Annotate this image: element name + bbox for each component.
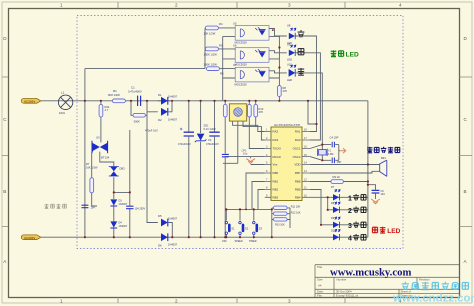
- svg-text:10u: 10u: [243, 152, 248, 156]
- zener ZD1: [195, 124, 216, 143]
- resistor R8 47K opto return: [278, 86, 288, 97]
- resistor R16 10K: [273, 218, 287, 227]
- resistor R6 160K: [204, 62, 224, 75]
- svg-text:U8: U8: [287, 24, 291, 28]
- diode D1 1N4007: [158, 93, 178, 105]
- resistor R5 130K: [204, 43, 223, 56]
- wire LED2 to RA0: [296, 53, 321, 140]
- LED U8 high: [287, 24, 296, 45]
- wire opto left-cathode bus: [223, 36, 236, 100]
- LED U10 low: [287, 63, 296, 82]
- diac DB3: [109, 166, 125, 176]
- svg-text:47K: 47K: [283, 89, 288, 93]
- svg-text:15P: 15P: [337, 160, 342, 164]
- text green LED label: [331, 50, 344, 56]
- resistor R13 47K: [254, 104, 264, 117]
- text low: [298, 68, 304, 75]
- svg-text:RB0: RB0: [273, 171, 279, 175]
- svg-text:OSC1: OSC1: [293, 147, 301, 151]
- svg-text:Title: Title: [317, 265, 323, 269]
- resistor R24: [99, 104, 110, 117]
- wire VDD to buzzer: [310, 164, 380, 166]
- resistor R1 in rail: [108, 89, 125, 103]
- svg-text:MCLR: MCLR: [273, 155, 281, 159]
- wire diac to cap/diode node: [114, 130, 130, 237]
- svg-text:R6: R6: [220, 72, 224, 76]
- text PTC note: [45, 204, 67, 209]
- svg-text:RB7: RB7: [295, 171, 301, 175]
- crystal Y1: [318, 149, 334, 156]
- svg-text:2: 2: [175, 3, 178, 8]
- optocoupler U5 MOC3020: [233, 21, 269, 44]
- text high: [298, 30, 305, 37]
- svg-text:160K 1/2W: 160K 1/2W: [204, 62, 218, 66]
- wire RB6 through R9 to bus: [310, 181, 368, 183]
- capacitor C9 104/250V: [126, 206, 145, 210]
- svg-text:6K8 1/2W: 6K8 1/2W: [108, 93, 120, 97]
- title block: [315, 265, 459, 297]
- switch S2: [235, 221, 249, 242]
- wire pull resistor bank: [272, 208, 290, 237]
- svg-text:Size: Size: [317, 278, 323, 282]
- wire bottom AC rail: [41, 236, 368, 238]
- wire top AC rail: [41, 100, 368, 102]
- svg-text:E:\png\ 900111.ck: E:\png\ 900111.ck: [336, 294, 359, 298]
- svg-text:U7: U7: [233, 63, 237, 67]
- wire left vertical bus: [84, 69, 86, 238]
- text 2 hour: [348, 206, 366, 214]
- diode D2 1N4007: [158, 108, 178, 122]
- LED U9 mid: [287, 42, 296, 61]
- svg-text:130K 1/2W: 130K 1/2W: [204, 53, 218, 57]
- wire pot side resistors: [225, 101, 265, 237]
- wire D5 branch: [147, 112, 172, 237]
- svg-text:R4: R4: [219, 22, 223, 26]
- svg-text:D10: D10: [331, 229, 336, 232]
- svg-text:D6: D6: [158, 244, 162, 248]
- wire LED row1: [310, 196, 368, 198]
- svg-text:1N4007: 1N4007: [168, 117, 178, 121]
- capacitor C4 15P: [330, 136, 339, 148]
- svg-text:U10: U10: [287, 63, 292, 67]
- wire LED row2: [328, 197, 368, 210]
- lamp fan motor B1: [58, 95, 72, 109]
- wire resistor-bank feed: [85, 68, 205, 70]
- capacitor C6 104: [372, 190, 386, 196]
- svg-text:RA0: RA0: [295, 138, 301, 142]
- svg-text:FAN: FAN: [59, 111, 65, 115]
- svg-text:RA2: RA2: [273, 130, 279, 134]
- svg-text:File:: File:: [317, 294, 323, 298]
- svg-text:OSC2: OSC2: [293, 155, 301, 159]
- terminal J1 AC220V top: [21, 99, 41, 104]
- resistor R4 10K: [204, 22, 223, 36]
- optocoupler U7 MOC3020: [233, 63, 269, 86]
- svg-text:470uF/16V: 470uF/16V: [178, 142, 191, 146]
- terminal J2 AC220V bottom: [21, 235, 41, 240]
- resistor R11 pot left: [223, 104, 227, 117]
- wire opto outputs to green LEDs: [269, 29, 287, 73]
- svg-text:R8: R8: [283, 86, 287, 90]
- wire LED1 to RA1: [296, 36, 317, 132]
- resistor R12 pot right: [248, 104, 252, 117]
- svg-text:S1: S1: [231, 227, 235, 231]
- switch S3: [249, 221, 263, 242]
- diode D4: [110, 221, 127, 228]
- power arrow crystal ground: [340, 148, 346, 153]
- svg-text:1N4007: 1N4007: [168, 216, 178, 220]
- wire R5 to opto U6: [219, 49, 236, 50]
- svg-text:U2 PIC16C54-XT/P: U2 PIC16C54-XT/P: [274, 123, 300, 127]
- svg-text:10K 1/2W: 10K 1/2W: [204, 32, 216, 36]
- svg-text:D5: D5: [158, 214, 162, 218]
- text C2 value note: [145, 129, 158, 133]
- svg-text:OFF: OFF: [222, 240, 227, 243]
- text ceramic buzzer label: [367, 147, 400, 153]
- text red LED label: [372, 227, 385, 233]
- svg-text:2: 2: [175, 299, 178, 304]
- svg-text:1N4007: 1N4007: [168, 94, 178, 98]
- svg-text:4.7: 4.7: [105, 108, 109, 112]
- svg-text:16K 1/2W: 16K 1/2W: [86, 166, 98, 170]
- svg-text:D1: D1: [158, 93, 162, 97]
- diode D3: [110, 199, 127, 206]
- wire triac lower: [100, 152, 114, 167]
- svg-text:1: 1: [60, 3, 63, 8]
- wire C1 R2 loop: [131, 101, 147, 116]
- wire triac gate R7: [92, 150, 97, 206]
- svg-text:5.1V 1/2W: 5.1V 1/2W: [204, 127, 217, 131]
- svg-text:MOC3020: MOC3020: [235, 82, 248, 86]
- svg-text:C4 15P: C4 15P: [330, 136, 339, 140]
- svg-text:R10 10K: R10 10K: [275, 224, 285, 227]
- capacitor C2 electrolytic: [178, 128, 194, 146]
- svg-text:4: 4: [348, 235, 352, 242]
- dashed enclosure box: [77, 16, 403, 249]
- svg-text:TIMER: TIMER: [249, 240, 257, 243]
- svg-text:C1: C1: [131, 86, 135, 90]
- LED D10 4hour: [331, 229, 340, 240]
- svg-text:470uF/16V: 470uF/16V: [206, 142, 219, 146]
- wire MCLR net: [225, 156, 265, 158]
- svg-text:RB4: RB4: [295, 196, 301, 200]
- svg-text:SPEED: SPEED: [235, 240, 243, 243]
- svg-text:1: 1: [348, 195, 352, 202]
- svg-text:BZ1: BZ1: [381, 156, 386, 160]
- optocoupler U6 MOC3020: [233, 44, 269, 67]
- svg-text:R13: R13: [259, 107, 264, 111]
- svg-text:R5: R5: [219, 43, 223, 47]
- svg-text:104: 104: [91, 207, 96, 210]
- svg-text:LED: LED: [387, 228, 400, 235]
- capacitor C8 in left bus: [82, 205, 96, 209]
- resistor R2 parallel: [133, 113, 145, 123]
- wire resistor-bank bus: [204, 28, 206, 69]
- svg-text:S3: S3: [259, 227, 263, 231]
- LED D7 1hour: [331, 186, 340, 201]
- svg-text:B: B: [3, 189, 6, 194]
- wire button net: [226, 209, 271, 237]
- capacitor C1 in rail: [128, 86, 142, 107]
- svg-text:www.cndzz.com: www.cndzz.com: [392, 293, 474, 305]
- resistor R9 1K: [331, 175, 344, 183]
- svg-text:U5: U5: [233, 21, 237, 25]
- capacitor CP1 MCLR: [222, 148, 248, 156]
- wire right vertical bus: [367, 101, 369, 237]
- wire ZD1 column: [200, 101, 202, 237]
- text 3 hour: [348, 221, 366, 229]
- svg-text:R11 10K: R11 10K: [291, 205, 301, 208]
- svg-text:S2: S2: [245, 227, 249, 231]
- svg-text:2: 2: [348, 208, 352, 215]
- svg-text:300K: 300K: [134, 120, 140, 124]
- svg-text:T0CKI: T0CKI: [273, 147, 281, 151]
- wire C2 column: [188, 101, 190, 237]
- watermark icon row: [402, 282, 469, 290]
- svg-text:RA3: RA3: [273, 138, 279, 142]
- text mid: [298, 49, 304, 55]
- svg-text:RB3: RB3: [273, 196, 279, 200]
- wire RB7 to buzzer: [310, 171, 380, 173]
- wire C6 branch: [368, 185, 376, 199]
- wire rail drop to RA1 net: [308, 101, 317, 124]
- svg-text:B: B: [464, 189, 467, 194]
- svg-text:L1: L1: [61, 91, 65, 95]
- wire Vss ground: [251, 157, 265, 165]
- svg-text:1N4007: 1N4007: [168, 243, 178, 247]
- svg-text:104: 104: [381, 193, 386, 196]
- svg-text:BT134: BT134: [101, 156, 110, 160]
- resistor R14 10K: [273, 205, 300, 209]
- svg-text:U6: U6: [233, 44, 237, 48]
- svg-text:Revision: Revision: [419, 278, 430, 282]
- buzzer BZ1: [380, 156, 387, 177]
- wire RB0-RB2 to buttons: [246, 173, 265, 209]
- svg-text:AC220V: AC220V: [24, 100, 35, 104]
- svg-text:3: 3: [288, 299, 291, 304]
- svg-text:470uF 16V: 470uF 16V: [145, 129, 158, 133]
- ground C6: [371, 199, 380, 204]
- diode D5 1N4007: [158, 214, 178, 226]
- triac U3 BT134: [92, 136, 110, 160]
- LED D9 3hour: [331, 217, 340, 228]
- wire R4 to opto U5: [219, 27, 236, 29]
- svg-text:RB5: RB5: [295, 188, 301, 192]
- svg-text:R24: R24: [105, 105, 110, 109]
- svg-text:www.mcusky.com: www.mcusky.com: [330, 267, 411, 279]
- svg-text:Vss: Vss: [273, 163, 278, 167]
- svg-text:1N4007: 1N4007: [119, 203, 128, 206]
- svg-text:U3: U3: [96, 136, 100, 140]
- wire R6 to opto U7: [220, 68, 236, 71]
- svg-text:R12 10K: R12 10K: [291, 211, 301, 214]
- svg-text:RB2: RB2: [273, 188, 279, 192]
- diode D6 1N4007: [158, 233, 178, 247]
- wire crystal net: [310, 145, 340, 161]
- wire pot legs: [223, 121, 265, 163]
- svg-text:R9 1K: R9 1K: [333, 175, 341, 179]
- capacitor C3 electrolytic: [206, 132, 220, 146]
- svg-text:104 250V: 104 250V: [135, 208, 146, 211]
- wire opto return bus: [269, 36, 279, 100]
- svg-text:LED: LED: [287, 58, 292, 62]
- switch S1: [222, 221, 235, 242]
- svg-text:1N4007: 1N4007: [119, 225, 128, 228]
- wire C3 column: [214, 101, 216, 237]
- svg-text:LED: LED: [287, 78, 292, 82]
- svg-text:D2: D2: [158, 118, 162, 122]
- svg-text:LED: LED: [346, 52, 359, 59]
- wire LED row3: [310, 190, 368, 225]
- resistor R15 10K: [273, 211, 300, 215]
- svg-text:DB3: DB3: [120, 166, 126, 170]
- svg-text:C3: C3: [208, 138, 212, 142]
- svg-text:4: 4: [399, 3, 402, 8]
- resistor R7: [86, 162, 98, 193]
- potentiometer RV1: [229, 104, 246, 121]
- svg-text:1: 1: [60, 299, 63, 304]
- svg-text:4.0M: 4.0M: [328, 153, 334, 156]
- LED D8 2hour: [331, 202, 340, 213]
- text 4 hour: [348, 234, 366, 242]
- svg-text:R1: R1: [113, 89, 117, 93]
- svg-text:A4: A4: [318, 283, 322, 287]
- svg-text:RB1: RB1: [273, 180, 279, 184]
- svg-text:3: 3: [348, 223, 352, 230]
- svg-text:U9: U9: [287, 42, 291, 46]
- svg-text:R7: R7: [86, 162, 90, 166]
- svg-text:RA1: RA1: [295, 130, 301, 134]
- svg-text:VDD: VDD: [294, 163, 300, 167]
- svg-text:RB6: RB6: [295, 180, 301, 184]
- wire D2 branch: [147, 101, 172, 112]
- IC U2 PIC16C54: [265, 123, 310, 201]
- capacitor C5 15P: [332, 158, 341, 165]
- svg-text:AC220V: AC220V: [24, 236, 35, 240]
- wire LED3 down bus: [296, 73, 323, 145]
- svg-text:47K: 47K: [259, 110, 264, 114]
- svg-text:3: 3: [288, 3, 291, 8]
- ground Vss: [246, 159, 255, 164]
- svg-text:0.47u/400V: 0.47u/400V: [128, 90, 142, 94]
- wire R24 branch: [100, 101, 102, 143]
- text 1 hour: [348, 194, 366, 202]
